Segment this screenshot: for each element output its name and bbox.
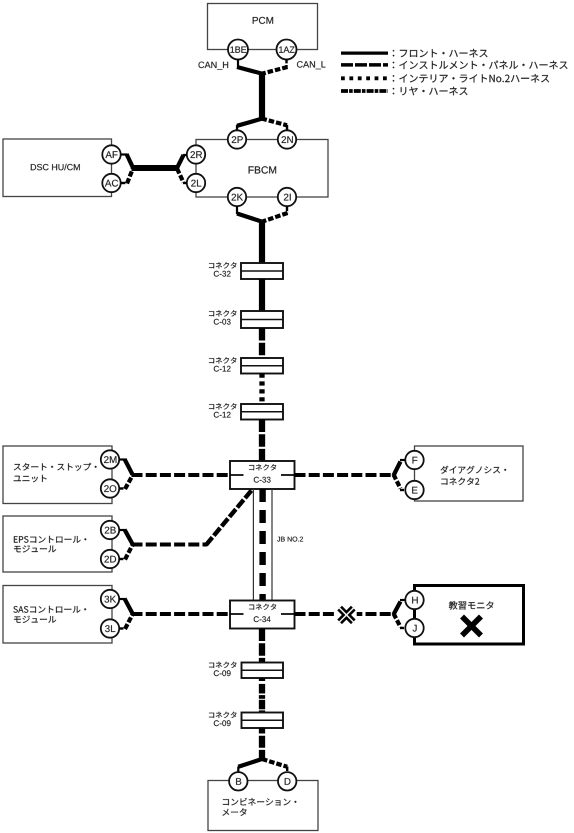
combination meter box [208,781,318,831]
connector C-12 upper [241,358,283,374]
legend label rear harness [393,87,468,95]
legend swatch rear harness [341,89,388,93]
trunk wire C-34 to C-09 (dashed) [259,629,265,663]
label connector C-03 [209,310,237,324]
pin 2K [228,188,246,206]
wire split to 2P [237,119,263,131]
trunk wire C-03 to C-12 (dashed) [259,328,265,358]
FBCM box [196,140,328,198]
connector C-32 [241,263,283,279]
pin E [405,481,423,499]
label connector C-09 upper [209,662,237,676]
wire AF to junction [121,154,133,168]
wire start-stop to C-33 (dashed) [132,473,231,477]
pin 2N [278,130,296,148]
wire 2D to junction (dashed) [119,545,132,560]
connector C-09 upper [242,663,284,679]
pin AF [102,145,120,163]
wire junction to E (dashed) [394,475,406,491]
legend label instrument panel harness [393,61,568,70]
label JB NO.2 [277,537,303,542]
connector C-12 lower [241,404,283,420]
connector C-33 [230,461,295,489]
SAS control module box [3,586,112,644]
pin B [229,772,247,790]
wire AC to junction (dashed) [121,168,133,183]
pin 1AZ [277,40,297,60]
legend swatch instrument panel harness [341,63,388,67]
EPS control module box [3,516,112,572]
pin F [405,451,423,469]
pin 2O [101,479,119,497]
wire EPS to C-33 (dashed horizontal) [132,543,208,547]
label connector C-12 lower [209,403,237,417]
wire junction to H [394,600,406,615]
legend label interior light No.2 harness [393,74,549,83]
label CAN_H [199,62,229,70]
no-connection X mark [464,619,479,634]
wire SAS to C-34 (dashed) [132,612,231,616]
pin 2I [278,188,296,206]
pin 2R [187,145,205,163]
trunk wire C-32 to C-03 [259,279,265,311]
legend swatch front harness [341,51,388,54]
wire 2B to junction [119,530,132,545]
wire break X symbol [336,604,357,625]
wire 2K to merge [237,207,262,222]
pin D [278,772,296,790]
trunk wire FBCM to C-32 [259,221,265,264]
trunk wire C-12 to C-33 (dashed) [259,420,265,462]
pin AC [102,174,120,192]
trunk wire PCM to FBCM split [259,72,265,120]
wire DSC to FBCM trunk [132,165,179,171]
legend label front harness [393,49,488,57]
connector C-09 lower [242,713,284,729]
trunk wire C-09 to combination meter (dash-dot) [259,728,265,761]
start-stop unit box [3,446,112,504]
JB NO.2 bus right rail [271,489,273,601]
wire junction to F [394,460,406,476]
wire junction to 2L (dashed) [177,169,187,184]
pin 2L [187,174,205,192]
pin J [405,619,423,637]
DSC HU/CM box [3,139,112,197]
wire C-34 to training monitor (dashed) [295,612,395,616]
JB NO.2 bus left rail [252,489,254,601]
label CAN_L [297,61,326,69]
wire 2O to junction (dashed) [119,476,132,490]
PCM box [208,4,318,50]
wire 2M to junction [119,459,132,475]
wire split to D (dashed) [262,759,287,772]
wire 3K to junction [119,599,132,614]
connector C-03 [241,311,283,328]
label connector C-32 [209,262,237,276]
pin 3L [101,619,119,637]
label connector C-09 lower [209,712,237,726]
pin 2D [101,550,119,568]
wire junction to J (dashed) [394,614,406,629]
trunk wire C-12 to C-12 (dotted) [259,374,264,405]
wire 2I to merge (dashed) [263,207,288,222]
wire 3L to junction (dashed) [119,615,132,630]
wire CAN_H from 1BE [237,59,262,74]
pin 3K [101,590,119,608]
wire EPS diagonal to C-33 (dashed) [206,490,252,545]
trunk wire C-09 to C-09 (dash-dot) [259,678,265,713]
wire split to 2N (dashed) [262,119,288,131]
label connector C-12 upper [209,357,237,371]
pin H [405,591,423,609]
connector C-34 [230,601,295,629]
wire C-33 to diagnosis connector (dashed) [295,473,395,477]
JB NO.2 bus wire (dashed) [259,489,265,601]
pin 2B [101,521,119,539]
pin 2P [228,130,246,148]
pin 2M [101,450,119,468]
wire junction to 2R [177,155,187,168]
wire split to B [238,759,262,772]
legend swatch interior light No.2 harness [341,76,391,80]
pin 1BE [228,40,248,60]
diagnosis connector 2 box [415,446,524,501]
training monitor box [415,586,524,645]
wire CAN_L from 1AZ (dashed) [263,59,288,74]
